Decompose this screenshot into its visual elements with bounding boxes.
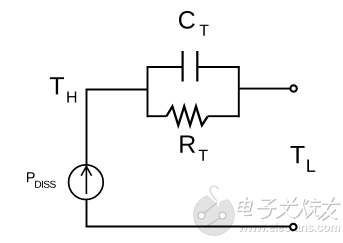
wire: right middle to terminal [238,88,290,90]
wire: top branch right [198,66,239,68]
RC box left edge wire [147,66,149,117]
node label T_L [291,146,305,163]
capacitor C_T right plate [196,51,198,82]
current source label P_DISS [27,172,35,182]
wire: bottom branch left [147,115,167,117]
wire: T_H vertical down to current source [86,89,88,166]
current source I1 circle [69,165,104,200]
capacitor C_T left plate [182,51,184,82]
wire: current source bottom to bottom rail [86,200,88,228]
terminal: bottom right open circle [290,224,296,230]
node label T_H [50,77,64,94]
watermark logo circle [194,186,235,235]
terminal: right middle open circle [290,85,296,91]
watermark url www.elecfans.com [239,223,340,232]
wire: bottom branch right [208,115,240,117]
wire: T_H node horizontal [86,89,148,91]
current source arrow [81,166,91,194]
resistor label R_T [180,136,195,153]
capacitor label C_T [179,11,195,29]
resistor R_T zigzag [167,106,208,125]
RC box right edge wire [238,66,240,117]
wire: top branch left [147,66,182,68]
wire: bottom rail [86,226,291,228]
